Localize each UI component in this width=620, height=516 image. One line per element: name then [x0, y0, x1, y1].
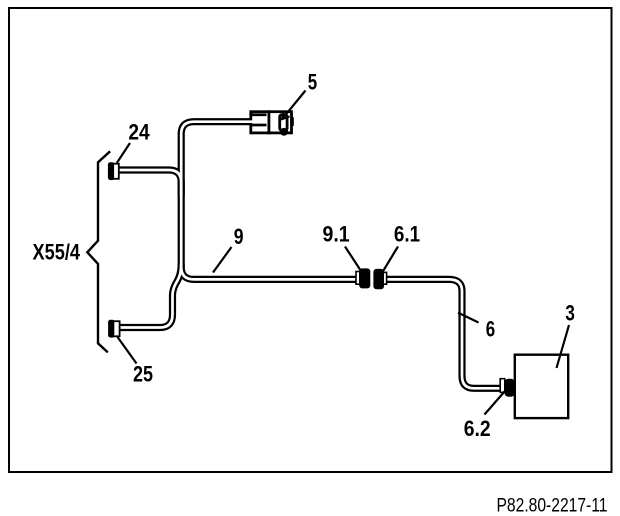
leader line for 6: [458, 313, 479, 323]
wire from plug 5 down trunk into main harness wire 9 (black outline pass): [117, 122, 502, 389]
brace for X55/4: [87, 151, 110, 352]
svg-text:X55/4: X55/4: [33, 240, 81, 265]
wire channel: branch to terminal 24: [117, 170, 181, 196]
terminal 25 end cap: [113, 321, 119, 336]
terminal 25 sleeve (black): [108, 320, 115, 338]
wire to terminal 25: [119, 264, 181, 328]
svg-text:25: 25: [133, 361, 153, 386]
plug 5 right side clip tab: [290, 117, 293, 126]
wire 9 end cap at coupling 9.1: [356, 272, 360, 285]
leader line for 6.1: [383, 247, 399, 273]
leader line for 3: [557, 325, 570, 368]
svg-text:9.1: 9.1: [323, 221, 350, 246]
svg-text:24: 24: [128, 119, 150, 144]
svg-text:P82.80-2217-11: P82.80-2217-11: [497, 494, 608, 516]
wire channel: wire 6: [386, 279, 502, 388]
leader line for 25: [118, 337, 137, 364]
leader line for 9: [213, 247, 232, 273]
svg-text:6: 6: [486, 316, 495, 341]
svg-text:6.2: 6.2: [464, 416, 491, 441]
wire white channel pass: [117, 122, 502, 389]
coupling half 6.1 (black block): [373, 269, 384, 289]
wire 6 end cap at connector 6.2: [500, 379, 505, 393]
svg-text:5: 5: [308, 70, 317, 95]
leader line for 24: [117, 143, 130, 163]
plug 5 inner latch rectangle: [280, 115, 287, 130]
wire channel: plug 5 trunk and main wire 9: [181, 122, 356, 280]
connector 6.2 (black block): [505, 379, 515, 397]
control unit box 3: [515, 355, 568, 418]
coupling half 9.1 (black block): [359, 268, 370, 288]
terminal 24 end cap: [113, 164, 119, 179]
leader line for 9.1: [345, 247, 361, 272]
wire 6 end cap at coupling 6.1: [383, 272, 386, 284]
svg-text:9: 9: [234, 224, 244, 249]
terminal 24 sleeve (black): [108, 162, 115, 180]
connector plug 5 housing: [251, 110, 292, 134]
svg-text:3: 3: [565, 300, 575, 325]
leader line for 5 with arrowhead: [282, 91, 306, 120]
wire to terminal 24: [117, 170, 181, 196]
plug 5 bottom boss: [280, 128, 288, 136]
wire channel: branch to terminal 25: [119, 264, 181, 328]
leader line for 6.2: [485, 391, 506, 415]
svg-text:6.1: 6.1: [394, 221, 420, 246]
wire 6 from coupling 6.1 to connector 6.2: [386, 279, 502, 388]
